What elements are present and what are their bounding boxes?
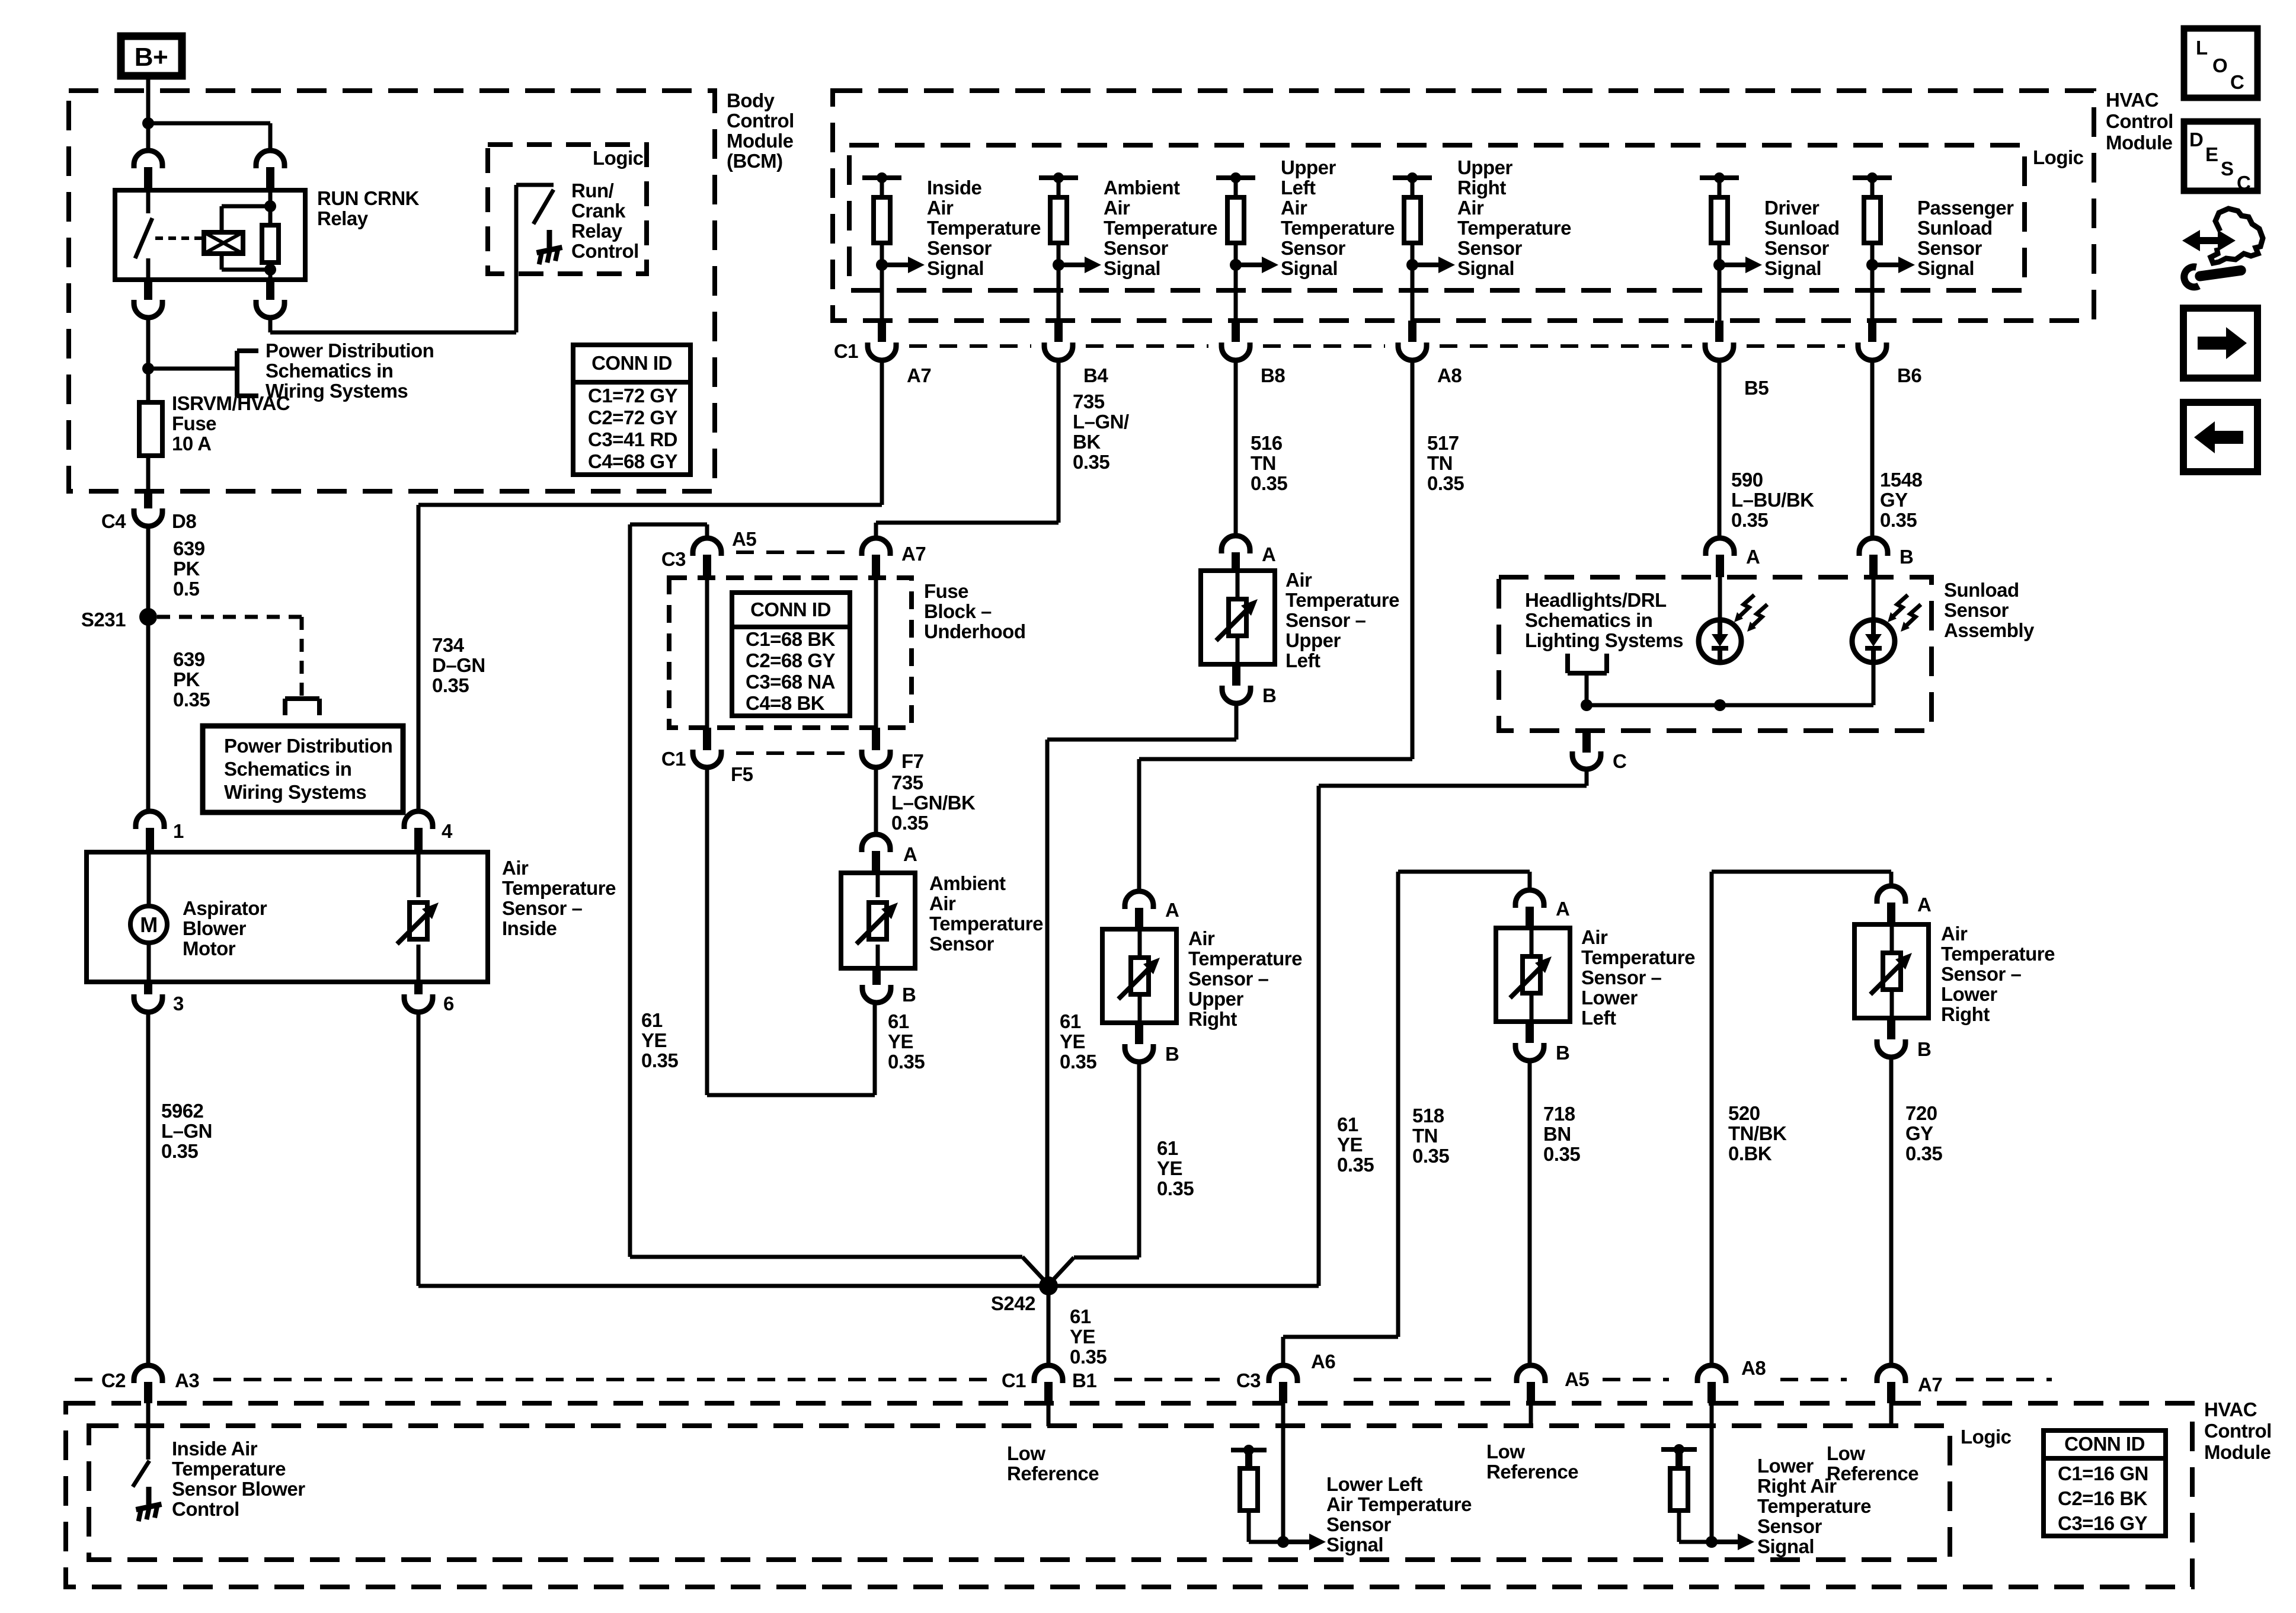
svg-text:1: 1 xyxy=(173,820,184,842)
svg-text:A5: A5 xyxy=(1565,1368,1589,1390)
air temperature sensor lower right box xyxy=(1854,924,1929,1018)
svg-text:Control: Control xyxy=(2204,1420,2272,1442)
svg-text:C4=68 GY: C4=68 GY xyxy=(588,450,677,472)
svg-text:0.35: 0.35 xyxy=(641,1049,678,1071)
icon arrow right xyxy=(2183,308,2257,378)
svg-text:S: S xyxy=(2221,158,2234,180)
svg-text:A7: A7 xyxy=(901,543,926,565)
sunload connector B xyxy=(1859,538,1888,556)
wire 518 TN lower left A to C3 A6 xyxy=(1528,872,1532,890)
svg-text:Signal: Signal xyxy=(1104,257,1160,279)
upper left sensor connector A xyxy=(1221,536,1250,553)
svg-text:B1: B1 xyxy=(1072,1369,1096,1391)
svg-text:Relay: Relay xyxy=(317,207,369,229)
wire B4 to fuse block A7 xyxy=(1057,360,1061,523)
thermistor air temperature sensor inside xyxy=(417,852,421,897)
svg-text:A: A xyxy=(1165,899,1179,921)
svg-text:Logic: Logic xyxy=(593,147,644,169)
svg-text:Right: Right xyxy=(1457,177,1506,199)
svg-text:C1=68 BK: C1=68 BK xyxy=(746,628,836,650)
svg-text:A: A xyxy=(1556,898,1569,920)
svg-text:735: 735 xyxy=(891,772,923,793)
svg-text:A6: A6 xyxy=(1311,1350,1335,1372)
svg-text:0.35: 0.35 xyxy=(161,1140,198,1162)
svg-text:5962: 5962 xyxy=(161,1100,204,1122)
driver sunload photodiode xyxy=(1718,577,1722,620)
svg-text:Left: Left xyxy=(1581,1007,1616,1029)
input ambient air temp sensor signal xyxy=(1039,175,1078,180)
wire 734 D-GN 0.35 xyxy=(417,505,421,811)
fuse block internal wires xyxy=(705,578,709,728)
connector pin 3 xyxy=(144,982,152,994)
wire 61 YE upper right B to S242 xyxy=(1137,1062,1141,1257)
svg-text:A7: A7 xyxy=(1918,1374,1942,1396)
wire 61 YE S242 to C1 B1 xyxy=(1047,1286,1051,1365)
wire relay coil to logic xyxy=(268,318,273,332)
svg-text:516: 516 xyxy=(1251,432,1283,454)
svg-text:L–BU/BK: L–BU/BK xyxy=(1731,489,1814,511)
sunload internal bus xyxy=(1587,703,1873,708)
svg-text:Wiring Systems: Wiring Systems xyxy=(224,781,366,803)
Body Control Module (BCM) box xyxy=(69,91,715,491)
dashed branch from S231 xyxy=(157,615,302,619)
svg-text:Low: Low xyxy=(1007,1442,1045,1464)
svg-text:4: 4 xyxy=(442,820,453,842)
motor M xyxy=(147,852,151,906)
svg-text:CONN ID: CONN ID xyxy=(2064,1433,2145,1455)
svg-text:BN: BN xyxy=(1543,1123,1571,1145)
svg-text:Module: Module xyxy=(2204,1441,2271,1463)
svg-text:0.35: 0.35 xyxy=(1880,509,1917,531)
svg-text:0.35: 0.35 xyxy=(1543,1143,1580,1165)
air temperature sensor upper left box xyxy=(1201,571,1275,664)
svg-text:Fuse: Fuse xyxy=(924,580,968,602)
svg-text:Lower: Lower xyxy=(1757,1455,1814,1477)
svg-text:TN: TN xyxy=(1427,452,1453,474)
svg-text:B+: B+ xyxy=(135,43,168,72)
svg-text:Schematics in: Schematics in xyxy=(266,360,393,382)
svg-text:ISRVM/HVAC: ISRVM/HVAC xyxy=(172,392,290,414)
svg-text:L–GN/: L–GN/ xyxy=(1073,411,1129,433)
wire A8 to upper right sensor xyxy=(1411,360,1415,759)
connector A7 bottom xyxy=(1877,1365,1905,1383)
svg-text:0.35: 0.35 xyxy=(1412,1145,1449,1167)
svg-text:A8: A8 xyxy=(1741,1357,1766,1379)
svg-text:517: 517 xyxy=(1427,432,1459,454)
wire 61 YE upper left B to S242 xyxy=(1235,703,1239,740)
svg-text:Lower: Lower xyxy=(1581,987,1638,1009)
svg-text:Sensor –: Sensor – xyxy=(1941,963,2022,985)
connector A5 xyxy=(1517,1365,1545,1383)
wire 639 PK 0.5 xyxy=(146,526,151,617)
connector pin B6 xyxy=(1868,321,1876,342)
svg-text:Temperature: Temperature xyxy=(1941,943,2055,965)
run crank control ground xyxy=(547,230,552,248)
svg-text:Reference: Reference xyxy=(1486,1461,1578,1483)
svg-text:Left: Left xyxy=(1281,177,1316,199)
svg-text:(BCM): (BCM) xyxy=(727,150,783,172)
svg-text:Inside: Inside xyxy=(927,177,982,199)
svg-text:Sensor –: Sensor – xyxy=(1581,966,1662,988)
lower right signal resistor branch xyxy=(1661,1447,1697,1452)
connector pin 6 xyxy=(414,982,423,994)
svg-text:Inside: Inside xyxy=(502,917,557,939)
svg-text:YE: YE xyxy=(1060,1030,1085,1052)
wire to relay coil branch xyxy=(148,121,270,126)
svg-text:GY: GY xyxy=(1880,489,1908,511)
svg-text:Air: Air xyxy=(1285,569,1312,591)
upper left sensor connector B xyxy=(1232,664,1240,686)
svg-text:C3: C3 xyxy=(1236,1369,1261,1391)
svg-text:718: 718 xyxy=(1543,1103,1575,1125)
svg-text:0.35: 0.35 xyxy=(888,1051,925,1073)
svg-text:C1: C1 xyxy=(1002,1369,1026,1391)
svg-text:Air: Air xyxy=(1188,927,1215,949)
bottom CONN ID table xyxy=(2044,1430,2166,1536)
wire lower right signal xyxy=(1710,1403,1714,1542)
HVAC bottom Logic box xyxy=(89,1426,1950,1560)
Run Crank Relay Control logic box xyxy=(488,145,647,274)
wire B+ to BCM xyxy=(146,79,151,123)
svg-text:A: A xyxy=(1917,894,1931,916)
svg-text:Signal: Signal xyxy=(1281,257,1338,279)
svg-text:Run/: Run/ xyxy=(571,180,614,201)
svg-text:0.35: 0.35 xyxy=(1337,1154,1374,1176)
svg-text:C1: C1 xyxy=(661,748,686,770)
svg-text:C: C xyxy=(2230,71,2244,93)
svg-text:Air: Air xyxy=(1104,197,1130,219)
svg-text:HVAC: HVAC xyxy=(2204,1398,2257,1420)
svg-text:Aspirator: Aspirator xyxy=(183,897,267,919)
svg-text:Low: Low xyxy=(1486,1441,1525,1462)
svg-text:C: C xyxy=(2237,172,2250,194)
svg-text:RUN CRNK: RUN CRNK xyxy=(317,187,420,209)
svg-text:0.35: 0.35 xyxy=(1073,451,1109,473)
svg-text:Lower Left: Lower Left xyxy=(1326,1473,1422,1495)
connector pin A7 xyxy=(878,321,886,342)
connector C2 A3 xyxy=(134,1365,162,1383)
blower control switch xyxy=(146,1403,151,1460)
svg-text:Logic: Logic xyxy=(1961,1426,2012,1448)
svg-text:C3: C3 xyxy=(661,548,686,570)
ambient sensor connector A xyxy=(874,767,878,834)
svg-text:B6: B6 xyxy=(1897,364,1921,386)
svg-text:B: B xyxy=(902,984,916,1006)
svg-text:Right Air: Right Air xyxy=(1757,1475,1837,1497)
wire A7 to inside sensor xyxy=(880,360,884,505)
svg-text:Sensor –: Sensor – xyxy=(502,897,583,919)
connector pin B4 xyxy=(1054,321,1063,342)
svg-text:Sensor: Sensor xyxy=(1917,237,1982,259)
relay pin 30 connector xyxy=(144,280,152,300)
svg-text:O: O xyxy=(2212,55,2227,76)
input driver sunload sensor signal xyxy=(1700,175,1739,180)
wire 61 YE pin6 to S242 xyxy=(417,1012,421,1286)
wire B5 to sunload A xyxy=(1718,360,1722,538)
relay pin 85 connector xyxy=(256,151,284,168)
svg-text:YE: YE xyxy=(1070,1326,1095,1348)
icon DESC xyxy=(2184,121,2257,191)
svg-text:Upper: Upper xyxy=(1188,988,1244,1010)
passenger sunload photodiode xyxy=(1872,577,1876,620)
svg-text:B: B xyxy=(1556,1042,1569,1064)
svg-text:YE: YE xyxy=(1157,1157,1182,1179)
HVAC Control Module box top xyxy=(833,91,2094,321)
svg-text:Sensor: Sensor xyxy=(1326,1513,1392,1535)
svg-text:Ambient: Ambient xyxy=(929,872,1006,894)
connector pin B8 xyxy=(1232,321,1240,342)
svg-text:Air: Air xyxy=(1941,923,1968,945)
svg-text:Inside Air: Inside Air xyxy=(172,1438,258,1460)
run crank control switch xyxy=(514,185,519,274)
svg-text:Sensor: Sensor xyxy=(1281,237,1346,259)
relay coil xyxy=(204,232,243,254)
svg-text:C2: C2 xyxy=(101,1369,126,1391)
svg-text:Control: Control xyxy=(172,1498,239,1520)
svg-text:Logic: Logic xyxy=(2033,146,2084,168)
svg-text:F5: F5 xyxy=(731,763,753,785)
wire 61 YE fuse block jog xyxy=(630,523,707,527)
svg-text:Temperature: Temperature xyxy=(929,913,1043,934)
wire 720 GY lower right B to A7 xyxy=(1889,1057,1894,1365)
svg-text:C2=72 GY: C2=72 GY xyxy=(588,407,677,428)
wire relay to fuse xyxy=(146,318,151,369)
svg-text:0.35: 0.35 xyxy=(173,689,210,711)
fuse block CONN ID table xyxy=(732,593,850,716)
svg-text:M: M xyxy=(140,913,158,937)
fuse block connector line bottom xyxy=(736,751,846,755)
svg-text:Underhood: Underhood xyxy=(924,620,1025,642)
svg-text:B5: B5 xyxy=(1744,377,1769,399)
input inside air temp sensor signal xyxy=(862,175,901,180)
svg-text:TN: TN xyxy=(1251,452,1276,474)
svg-text:Upper: Upper xyxy=(1457,156,1513,178)
svg-text:518: 518 xyxy=(1412,1105,1444,1126)
svg-text:A: A xyxy=(1746,546,1760,568)
svg-text:61: 61 xyxy=(1157,1137,1178,1159)
wire 5962 L-GN 0.35 xyxy=(146,1012,151,1365)
svg-text:Power Distribution: Power Distribution xyxy=(266,340,434,361)
svg-text:590: 590 xyxy=(1731,469,1763,491)
svg-text:Temperature: Temperature xyxy=(927,217,1041,239)
svg-text:C2=16 BK: C2=16 BK xyxy=(2058,1487,2148,1509)
svg-text:Sensor: Sensor xyxy=(1764,237,1830,259)
svg-text:B4: B4 xyxy=(1083,364,1108,386)
svg-text:CONN ID: CONN ID xyxy=(750,599,831,620)
svg-text:Crank: Crank xyxy=(571,200,626,222)
wire 520 TN/BK lower right A to A8 xyxy=(1889,872,1894,886)
svg-text:Headlights/DRL: Headlights/DRL xyxy=(1525,589,1667,611)
wire B8 to upper left sensor xyxy=(1234,360,1238,536)
connector line bottom module xyxy=(75,1378,97,1381)
off-page bracket power distribution xyxy=(148,367,236,371)
svg-text:Temperature: Temperature xyxy=(1581,946,1695,968)
svg-text:Right: Right xyxy=(1188,1008,1237,1030)
svg-text:B: B xyxy=(1900,546,1913,568)
connector pin B5 xyxy=(1715,321,1723,342)
svg-text:B: B xyxy=(1165,1043,1179,1065)
ambient sensor connector B xyxy=(872,968,881,985)
input passenger sunload sensor signal xyxy=(1853,175,1892,180)
connector A8 bottom xyxy=(1697,1365,1726,1383)
BCM CONN ID table xyxy=(573,345,690,475)
svg-text:TN: TN xyxy=(1412,1125,1438,1147)
upper right sensor connector B xyxy=(1135,1023,1143,1044)
svg-text:Sensor: Sensor xyxy=(1457,237,1523,259)
connector C4 D8 xyxy=(144,491,152,508)
splice S242 xyxy=(1039,1276,1058,1295)
svg-text:YE: YE xyxy=(888,1030,913,1052)
wire B1 low reference xyxy=(1047,1403,1051,1426)
svg-text:L: L xyxy=(2196,37,2208,59)
svg-text:C2=68 GY: C2=68 GY xyxy=(746,649,835,671)
connector pin 1 xyxy=(136,811,164,829)
lower left sensor connector B xyxy=(1526,1022,1534,1043)
wire B6 to sunload B xyxy=(1870,360,1875,538)
svg-text:Module: Module xyxy=(727,130,794,152)
svg-text:61: 61 xyxy=(1070,1305,1091,1327)
fuse block connector F7 xyxy=(872,728,880,750)
off-page bracket headlights xyxy=(1565,654,1570,673)
svg-text:A: A xyxy=(903,843,917,865)
svg-text:0.35: 0.35 xyxy=(1905,1142,1942,1164)
svg-text:Air: Air xyxy=(1581,926,1608,948)
svg-text:Signal: Signal xyxy=(1457,257,1514,279)
svg-text:0.35: 0.35 xyxy=(1060,1051,1096,1073)
svg-text:C1=16 GN: C1=16 GN xyxy=(2058,1462,2148,1484)
sunload connector A xyxy=(1706,538,1734,556)
air temperature sensor upper right box xyxy=(1102,929,1176,1023)
svg-text:Air Temperature: Air Temperature xyxy=(1326,1493,1472,1515)
svg-text:Reference: Reference xyxy=(1827,1462,1918,1484)
svg-text:61: 61 xyxy=(1060,1010,1081,1032)
input upper right air temp sensor signal xyxy=(1393,175,1432,180)
svg-text:Control: Control xyxy=(571,240,639,262)
svg-text:0.5: 0.5 xyxy=(173,578,200,600)
svg-text:734: 734 xyxy=(432,634,465,656)
svg-text:Sensor: Sensor xyxy=(1757,1515,1822,1537)
svg-text:Driver: Driver xyxy=(1764,197,1819,219)
svg-text:0.35: 0.35 xyxy=(1070,1346,1107,1368)
svg-text:S231: S231 xyxy=(81,609,126,631)
wire 61 YE from fuse jog to S242 xyxy=(630,1255,1022,1259)
lower left sensor connector A xyxy=(1515,890,1544,908)
svg-text:Sensor Blower: Sensor Blower xyxy=(172,1478,305,1500)
ambient air temperature sensor box xyxy=(841,873,915,968)
connector C1 B1 xyxy=(1034,1365,1063,1383)
svg-text:Sensor: Sensor xyxy=(1944,599,2009,621)
relay pin 86 connector xyxy=(134,151,162,168)
off-page bracket to power distribution box xyxy=(285,696,319,701)
svg-text:C3=16 GY: C3=16 GY xyxy=(2058,1512,2147,1534)
fuse block connector A7 xyxy=(862,538,890,556)
svg-text:61: 61 xyxy=(641,1009,663,1031)
svg-text:Body: Body xyxy=(727,89,775,111)
node junction B+ branch xyxy=(142,117,154,129)
svg-text:Control: Control xyxy=(2106,110,2173,132)
wire lower left signal xyxy=(1281,1403,1285,1542)
svg-text:Temperature: Temperature xyxy=(1188,948,1302,969)
svg-text:Sensor –: Sensor – xyxy=(1285,609,1366,631)
svg-text:Sunload: Sunload xyxy=(1944,579,2019,601)
svg-text:Signal: Signal xyxy=(1917,257,1974,279)
svg-text:Signal: Signal xyxy=(1326,1534,1383,1556)
fuse block dashed box xyxy=(669,578,912,728)
svg-text:C1: C1 xyxy=(834,340,858,362)
connector C3 A6 xyxy=(1269,1365,1297,1383)
sunload connector C xyxy=(1582,731,1591,753)
relay switch contact xyxy=(146,190,151,213)
svg-text:Low: Low xyxy=(1827,1442,1865,1464)
svg-text:Block –: Block – xyxy=(924,600,992,622)
fuse ISRVM/HVAC xyxy=(146,369,151,402)
connector line C1 HVAC top xyxy=(909,344,1031,348)
svg-text:Schematics in: Schematics in xyxy=(224,758,351,780)
svg-text:720: 720 xyxy=(1905,1102,1937,1124)
svg-text:Right: Right xyxy=(1941,1003,1990,1025)
relay internal resistor xyxy=(268,190,273,206)
svg-text:Air: Air xyxy=(1457,197,1484,219)
wire 61 YE F5 to ambient sensor B xyxy=(705,767,709,1095)
svg-text:Upper: Upper xyxy=(1285,629,1341,651)
svg-text:Temperature: Temperature xyxy=(502,877,616,899)
svg-text:61: 61 xyxy=(1337,1113,1358,1135)
svg-text:0.35: 0.35 xyxy=(891,812,928,834)
svg-text:YE: YE xyxy=(641,1029,667,1051)
svg-text:Sensor: Sensor xyxy=(927,237,992,259)
svg-text:B: B xyxy=(1917,1038,1931,1060)
svg-text:L–GN/BK: L–GN/BK xyxy=(891,792,976,814)
svg-text:Power Distribution: Power Distribution xyxy=(224,735,392,757)
svg-text:PK: PK xyxy=(173,668,200,690)
svg-text:Temperature: Temperature xyxy=(172,1458,286,1480)
connector pin 4 xyxy=(404,811,433,829)
svg-text:BK: BK xyxy=(1073,431,1101,453)
svg-text:Temperature: Temperature xyxy=(1104,217,1217,239)
blower control ground xyxy=(146,1487,152,1505)
svg-text:Sensor: Sensor xyxy=(1104,237,1169,259)
svg-text:Reference: Reference xyxy=(1007,1462,1099,1484)
svg-text:Temperature: Temperature xyxy=(1285,589,1399,611)
svg-text:639: 639 xyxy=(173,648,205,670)
splice S231 xyxy=(139,608,157,626)
svg-text:C3=68 NA: C3=68 NA xyxy=(746,671,835,693)
air temperature sensor lower left box xyxy=(1496,928,1570,1022)
svg-text:Blower: Blower xyxy=(183,917,247,939)
input upper left air temp sensor signal xyxy=(1216,175,1255,180)
svg-text:639: 639 xyxy=(173,537,205,559)
wire 718 BN lower left B to A5 xyxy=(1528,1061,1532,1365)
power terminal B+ xyxy=(121,36,182,76)
wire A5 low reference xyxy=(1529,1403,1533,1426)
svg-text:Sensor –: Sensor – xyxy=(1188,968,1269,990)
icon double arrow with outline and wrench xyxy=(2189,237,2228,244)
lower right sensor connector A xyxy=(1877,886,1905,904)
svg-text:Fuse: Fuse xyxy=(172,412,216,434)
svg-text:0.35: 0.35 xyxy=(1731,509,1768,531)
power distribution reference box xyxy=(203,726,403,812)
svg-text:0.35: 0.35 xyxy=(1427,472,1464,494)
svg-text:3: 3 xyxy=(173,993,184,1014)
svg-text:D: D xyxy=(2189,129,2203,151)
lower left signal resistor branch xyxy=(1231,1448,1267,1452)
fuse block connector C3 A5 xyxy=(693,538,721,556)
svg-text:Left: Left xyxy=(1285,649,1320,671)
svg-text:Lighting Systems: Lighting Systems xyxy=(1525,629,1683,651)
svg-text:Motor: Motor xyxy=(183,937,236,959)
svg-text:1548: 1548 xyxy=(1880,469,1923,491)
svg-text:F7: F7 xyxy=(901,750,924,772)
